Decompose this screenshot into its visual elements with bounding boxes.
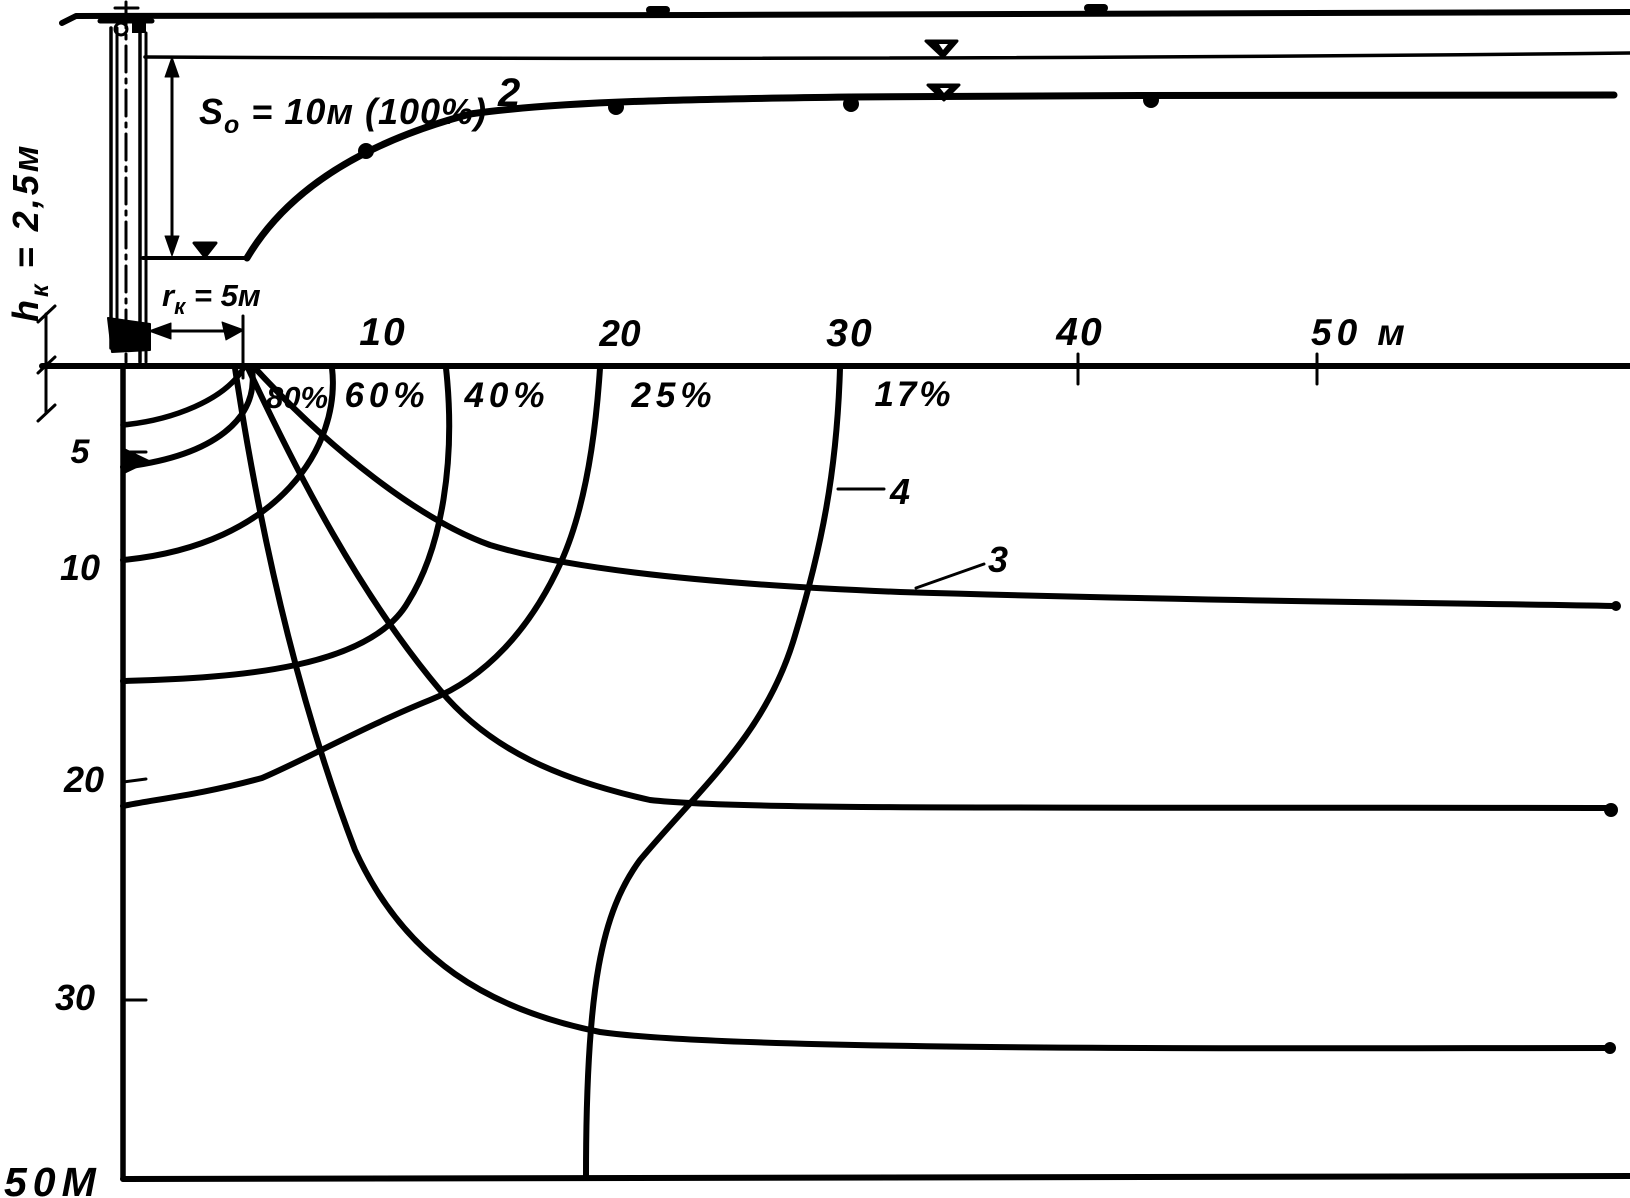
flow line middle xyxy=(248,368,1611,808)
svg-text:25%: 25% xyxy=(630,376,716,415)
bottom impermeable boundary xyxy=(123,1176,1630,1179)
equipotential arc near well xyxy=(123,369,243,425)
equipotential 17% (curve 4) xyxy=(586,368,840,1176)
svg-text:50 м: 50 м xyxy=(1311,312,1410,353)
depth tick 20 xyxy=(123,779,146,782)
node dot on curve 2 at x=366 xyxy=(358,143,374,159)
axis tick 40 xyxy=(1077,354,1080,384)
depth tick 30 xyxy=(123,999,146,1002)
water table symbol at well level xyxy=(194,243,216,257)
well centerline (dash-dot) xyxy=(125,2,128,362)
horizontal distance axis xyxy=(42,363,1630,369)
water table symbol on depression curve xyxy=(928,85,959,100)
svg-text:Sо = 10м (100%): Sо = 10м (100%) xyxy=(199,91,487,139)
svg-text:40: 40 xyxy=(1055,311,1103,354)
svg-text:17%: 17% xyxy=(874,375,953,414)
water table symbol on static line xyxy=(926,41,957,57)
end dot flow line middle xyxy=(1604,803,1618,817)
centerline cross dash xyxy=(115,7,138,10)
svg-text:10: 10 xyxy=(359,311,406,354)
r_k edge vertical xyxy=(242,316,245,378)
vertical depth axis xyxy=(120,366,126,1179)
well bottom blob xyxy=(108,318,150,352)
scan bump on top line xyxy=(650,6,666,14)
ground surface top line xyxy=(62,12,1630,23)
leader line for label 4 xyxy=(838,488,884,491)
svg-text:3: 3 xyxy=(988,539,1008,580)
node dot on curve 2 at x=1151 xyxy=(1143,92,1159,108)
S0 dimension line xyxy=(171,64,174,250)
depth tick 5 xyxy=(123,451,146,454)
end dot flow line 3 xyxy=(1611,601,1621,611)
water level in well line xyxy=(143,256,247,260)
h_k dimension line xyxy=(45,314,48,413)
well cap circle xyxy=(115,23,127,35)
svg-text:30: 30 xyxy=(826,312,873,355)
equipotential 40% xyxy=(123,368,449,681)
svg-text:4: 4 xyxy=(889,471,910,512)
scan bump on top line 2 xyxy=(1088,4,1104,12)
equipotential 60% xyxy=(123,368,333,560)
static water table line xyxy=(145,53,1630,58)
svg-text:80%: 80% xyxy=(266,380,328,415)
node dot on curve 2 at x=851 xyxy=(843,96,859,112)
svg-text:40%: 40% xyxy=(463,376,549,415)
svg-text:20: 20 xyxy=(598,313,641,354)
depth tick 10 xyxy=(123,556,147,559)
r_k dimension line xyxy=(152,330,232,333)
well casing right wall xyxy=(138,33,142,362)
axis tick 50 xyxy=(1316,354,1319,384)
leader line for label 3 xyxy=(916,564,984,588)
svg-text:10: 10 xyxy=(60,547,100,588)
well casing left wall xyxy=(109,28,113,348)
well cap bar xyxy=(100,19,152,24)
svg-text:60%: 60% xyxy=(344,376,429,415)
depression curve 2 xyxy=(247,95,1614,258)
node dot on curve 2 at x=616 xyxy=(608,99,624,115)
wedge marker at depth 5 xyxy=(123,448,150,474)
svg-text:20: 20 xyxy=(63,759,104,800)
end dot flow line deep xyxy=(1604,1042,1616,1054)
equipotential 25% xyxy=(123,368,600,806)
svg-text:5: 5 xyxy=(71,433,91,471)
svg-text:2: 2 xyxy=(497,71,520,115)
equipotential 80% xyxy=(123,369,253,467)
flow line 3 xyxy=(255,368,1614,606)
flow line deep xyxy=(235,368,1610,1048)
svg-text:50М: 50М xyxy=(4,1159,102,1198)
svg-text:30: 30 xyxy=(55,977,95,1018)
well cap block xyxy=(132,21,146,33)
